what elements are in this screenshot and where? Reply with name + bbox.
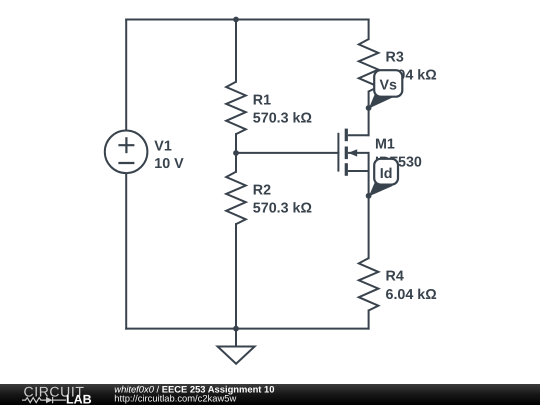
- resistor R1: [226, 82, 312, 134]
- wire R4 to bottom rail: [368, 311, 370, 329]
- drain lead: [348, 134, 369, 136]
- channel segment bottom: [345, 163, 348, 176]
- source lead: [348, 170, 369, 172]
- wire gate: [236, 152, 338, 154]
- resistor R3: [359, 39, 437, 91]
- svg-text:Vs: Vs: [379, 78, 397, 94]
- svg-text:R4: R4: [386, 269, 404, 285]
- wire left rail upper: [125, 20, 127, 130]
- CircuitLab logo: [22, 383, 92, 405]
- wire top rail: [126, 19, 368, 21]
- probe Vs: [369, 70, 403, 108]
- svg-text:Id: Id: [380, 166, 393, 182]
- wire left rail lower: [125, 174, 127, 329]
- svg-text:R1: R1: [253, 92, 271, 108]
- node between R1 and R2: [233, 150, 239, 156]
- resistor R2: [226, 172, 312, 224]
- bulk arrow: [348, 149, 357, 156]
- wire middle rail top: [235, 20, 237, 82]
- channel segment top: [345, 129, 348, 142]
- svg-text:R2: R2: [253, 182, 271, 198]
- junction dot top: [233, 17, 239, 23]
- probe Id: [369, 159, 398, 197]
- svg-text:http://circuitlab.com/c2kaw5w: http://circuitlab.com/c2kaw5w: [114, 392, 236, 403]
- svg-text:LAB: LAB: [66, 392, 92, 405]
- wire bottom rail: [126, 328, 368, 330]
- voltage source V1: [105, 131, 184, 174]
- resistor R4: [359, 258, 437, 310]
- wire node to R2: [235, 153, 237, 172]
- svg-text:V1: V1: [154, 139, 172, 155]
- svg-text:10 V: 10 V: [154, 156, 184, 172]
- wire R1 to node: [235, 134, 237, 153]
- svg-text:6.04 kΩ: 6.04 kΩ: [386, 287, 437, 303]
- wire right rail top: [368, 20, 370, 40]
- ground: [218, 329, 255, 364]
- junction dot Vs attach: [366, 105, 372, 111]
- transistor M1 (NMOS): [338, 129, 422, 176]
- svg-text:570.3 kΩ: 570.3 kΩ: [253, 111, 312, 127]
- svg-text:570.3 kΩ: 570.3 kΩ: [253, 200, 312, 216]
- gate bar: [337, 133, 339, 172]
- svg-text:R3: R3: [386, 50, 404, 66]
- junction dot bottom (ground): [233, 326, 239, 332]
- wire R2 to bottom rail: [235, 224, 237, 329]
- channel segment middle: [345, 147, 348, 160]
- wire R3 to drain: [368, 92, 370, 136]
- bulk lead: [348, 152, 369, 154]
- svg-text:M1: M1: [375, 137, 395, 153]
- wire source to R4: [368, 153, 370, 258]
- junction dot Id attach: [366, 193, 372, 199]
